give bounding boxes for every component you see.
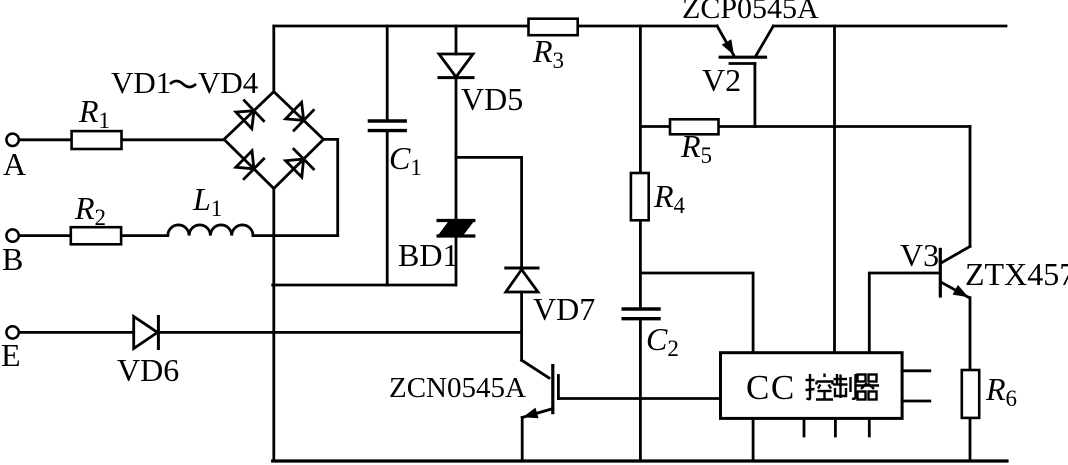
resistor R3: [529, 19, 578, 36]
wire R4 column from top rail: [639, 26, 642, 173]
wire bottom rail: [273, 459, 1007, 462]
wire E line from terminal to VD6: [19, 331, 134, 334]
svg-text:VD4: VD4: [198, 65, 259, 100]
svg-text:ZCP0545A: ZCP0545A: [682, 0, 819, 25]
wire R6 to bottom rail: [969, 418, 972, 461]
svg-text:A: A: [3, 146, 26, 182]
wire V3 collector column: [969, 127, 972, 247]
node E terminal: [6, 326, 18, 338]
CC controller right pins: [902, 371, 930, 401]
resistor R1: [72, 131, 122, 149]
wire bridge right vertex link: [324, 139, 338, 235]
svg-text:E: E: [1, 337, 21, 373]
diode VD7: [506, 268, 538, 292]
svg-text:ZCN0545A: ZCN0545A: [389, 372, 526, 404]
wire C1 column upper: [386, 26, 389, 121]
resistor R4: [631, 173, 649, 220]
wire VD6 to VD7 column: [158, 331, 521, 334]
wire top rail branch to CC controller: [833, 26, 836, 353]
wire C1 column lower: [386, 131, 389, 285]
svg-text:BD1: BD1: [398, 237, 458, 273]
wire top rail middle segment: [578, 25, 717, 28]
wire bridge top vertex to top rail: [272, 26, 275, 92]
label CC controller qi character: [856, 375, 880, 400]
wire R4 to C2: [639, 220, 642, 309]
wire R4 branch to CC controller pin: [640, 273, 753, 353]
bridge rectifier VD1-VD4 diamond: [224, 92, 324, 189]
resistor R5: [670, 119, 719, 134]
diode VD4 bottom-right: [286, 149, 314, 177]
label CC controller kong character: [806, 374, 834, 400]
wire bridge bottom column to bottom rail: [272, 189, 275, 462]
resistor R2: [71, 227, 121, 244]
wire V3 base branch to CC controller: [869, 273, 940, 353]
wire R2 to L1: [121, 234, 168, 237]
diode VD5: [439, 54, 473, 78]
wire C2 to bottom rail: [639, 319, 642, 461]
node A terminal: [6, 134, 18, 146]
wire VD5 branch to VD7: [456, 157, 522, 268]
wire R5 right to V3 collector: [719, 125, 971, 128]
label CC controller zhi character: [833, 374, 856, 399]
node B terminal: [6, 229, 18, 241]
wire R1 to bridge: [122, 138, 225, 141]
CC controller box: [721, 353, 903, 419]
svg-text:VD6: VD6: [117, 352, 179, 388]
svg-text:VD1: VD1: [111, 65, 171, 100]
diode VD1 top-left: [236, 101, 264, 129]
svg-text:B: B: [2, 241, 23, 277]
svg-text:VD5: VD5: [461, 81, 523, 117]
wire VD7 to E junction and V1 collector: [520, 292, 523, 360]
transistor V2: [717, 26, 773, 64]
wire V1 base lead to CC controller: [558, 397, 720, 400]
wire top rail right segment: [773, 25, 1006, 28]
svg-text:VD7: VD7: [533, 291, 595, 327]
wire V3 emitter to R6: [969, 298, 972, 370]
diode VD2 top-right: [286, 102, 314, 130]
svg-text:V2: V2: [702, 62, 741, 98]
wire BD1 bottom lead: [455, 236, 458, 285]
svg-text:V3: V3: [900, 237, 939, 273]
node A wire to bridge left vertex: [19, 138, 72, 141]
diode VD6: [134, 317, 159, 349]
wire VD5 to BD1 column: [455, 78, 458, 221]
resistor R6: [962, 370, 979, 418]
capacitor C2: [623, 309, 659, 319]
wire CC controller pin to bottom rail: [752, 418, 755, 461]
wire L1 to bridge right column: [253, 234, 338, 237]
transistor V1 ZCN0545A: [522, 360, 559, 418]
wire top rail left segment: [274, 25, 529, 28]
diode VD3 bottom-left: [236, 151, 264, 179]
wire C1 BD1 bottom bus: [273, 284, 456, 287]
wire V2 base lead down: [754, 64, 757, 127]
svg-text:ZTX457: ZTX457: [965, 256, 1068, 292]
node B wire to R2: [19, 234, 71, 237]
wire VD5 column above: [455, 26, 458, 54]
CC controller bottom pins: [804, 418, 869, 436]
zener BD1: [438, 221, 474, 237]
capacitor C1: [369, 121, 405, 131]
inductor L1: [168, 225, 253, 236]
wire R5 left lead: [640, 125, 670, 128]
transistor V3: [940, 246, 970, 297]
svg-text:CC: CC: [746, 368, 796, 407]
wire V1 emitter to bottom rail: [521, 418, 524, 462]
